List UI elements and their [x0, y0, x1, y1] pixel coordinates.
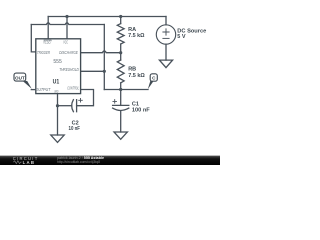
ground C2 [51, 135, 64, 142]
node vcc riser junction [65, 15, 68, 18]
wire trigger vertical [103, 25, 105, 90]
wire DC source bottom [165, 44, 167, 60]
logo zigzag [13, 161, 21, 164]
wire trigger left drop [31, 25, 36, 52]
node gnd C2 junction [56, 104, 59, 107]
svg-text:7.5 kΩ: 7.5 kΩ [128, 73, 145, 79]
node RA RB discharge junction [119, 51, 122, 54]
dc source V1 circle [156, 25, 175, 44]
capacitor C1 plates [113, 104, 129, 106]
wire RA top lead [120, 17, 122, 24]
capacitor C2 plates [72, 100, 74, 112]
wire discharge with hop [81, 51, 121, 53]
flag OUT tail [22, 80, 32, 89]
svg-text:100 nF: 100 nF [132, 108, 150, 114]
svg-text:U1: U1 [53, 80, 60, 86]
wire DC source top [165, 17, 167, 25]
svg-text:DISCHARGE: DISCHARGE [59, 50, 78, 55]
wire VCC riser [66, 17, 68, 39]
wire C2 left [58, 105, 72, 107]
svg-text:CONTROL: CONTROL [67, 85, 79, 90]
svg-text:http://circuitlab.com/cv4j3tq8: http://circuitlab.com/cv4j3tq8 [57, 160, 100, 164]
op IC 555 U1 box [36, 39, 81, 94]
svg-text:VCC: VCC [63, 40, 68, 45]
svg-text:RB: RB [128, 67, 136, 73]
svg-text:OUT: OUT [15, 75, 25, 80]
wire RB top lead [120, 53, 122, 60]
wire output stub [31, 89, 36, 91]
svg-text:C1: C1 [132, 102, 139, 108]
wire C2 to control [77, 90, 94, 106]
capacitor C2 plus sign [79, 99, 83, 103]
svg-text:RESET: RESET [43, 40, 51, 45]
flag C tail [148, 81, 154, 90]
flag C box [150, 74, 157, 81]
wire RB bottom lead [120, 83, 122, 90]
wire RA bottom lead [120, 44, 122, 53]
wire GND riser [57, 94, 59, 135]
capacitor C1 plus sign [113, 100, 117, 104]
wire top +5V rail [48, 16, 166, 18]
svg-text:7.5 kΩ: 7.5 kΩ [128, 33, 145, 39]
svg-text:555: 555 [53, 59, 62, 65]
svg-text:TRIGGER: TRIGGER [37, 50, 51, 55]
svg-text:RA: RA [128, 27, 136, 33]
svg-text:5 V: 5 V [177, 34, 186, 40]
node RA top junction [119, 15, 122, 18]
wire trigger rail with hops [31, 23, 104, 25]
wire C1 bottom lead [120, 111, 122, 132]
dc source minus [163, 37, 169, 39]
svg-text:OUTPUT: OUTPUT [35, 87, 50, 92]
ground C1 [114, 132, 127, 139]
svg-text:GND: GND [54, 89, 59, 93]
resistor RA [117, 24, 124, 44]
node threshold junction [103, 70, 106, 73]
wire node C horizontal [104, 89, 148, 91]
ground DC source [159, 60, 172, 68]
dc source plus [163, 29, 169, 35]
junction dots [56, 15, 122, 107]
wire threshold [81, 70, 105, 72]
svg-text:10 nF: 10 nF [69, 126, 81, 132]
resistor RB [117, 60, 124, 83]
wire RESET riser [47, 17, 49, 39]
svg-text:THRESHOLD: THRESHOLD [59, 67, 79, 72]
svg-text:LAB: LAB [23, 160, 36, 165]
flag OUT box [14, 73, 26, 81]
node RB C1 junction [119, 88, 122, 91]
wire C1 top lead [120, 90, 122, 106]
